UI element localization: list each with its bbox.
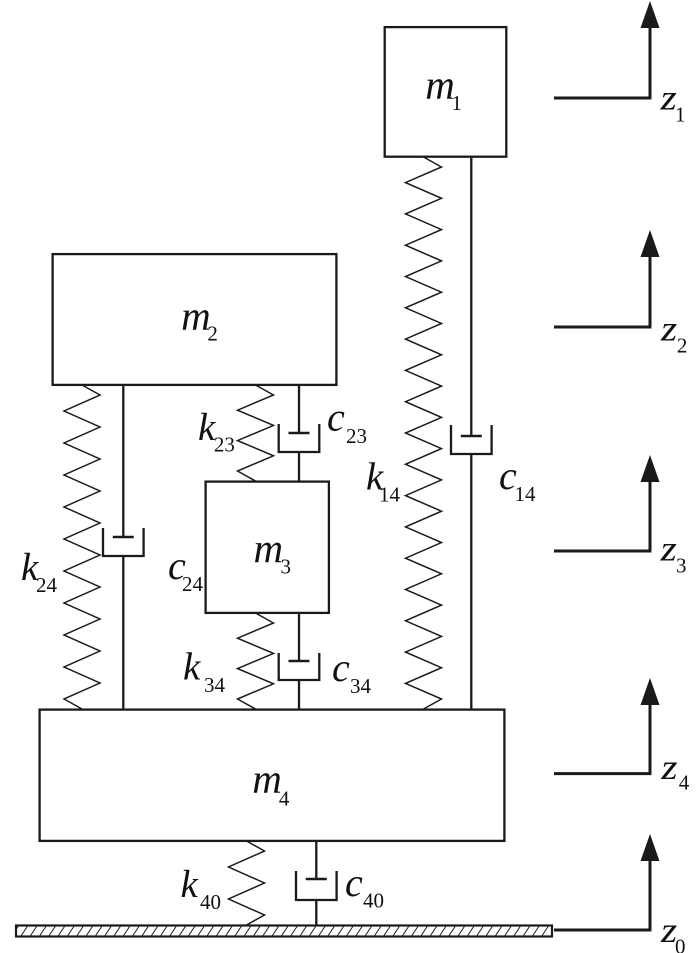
svg-text:3: 3 [281, 555, 292, 579]
svg-text:2: 2 [207, 322, 218, 346]
coordinate axis z4 vertical line [649, 702, 652, 774]
svg-text:z: z [660, 747, 677, 787]
coordinate axis z1 vertical line [649, 25, 652, 98]
svg-text:34: 34 [350, 674, 372, 698]
coordinate axis z3 arrowhead [641, 455, 660, 482]
damper c34 rod (bottom) [298, 680, 300, 709]
damper c14 cylinder cup [451, 425, 492, 454]
mass block m1 [385, 27, 507, 157]
coordinate axis z2 horizontal line [554, 326, 651, 329]
damper c40 rod (bottom) [315, 900, 317, 925]
coordinate axis z1 horizontal line [554, 97, 651, 100]
ground hatching [12, 927, 557, 936]
damper c24 rod (top) [122, 385, 124, 537]
coordinate axis z2 arrowhead [641, 230, 660, 257]
svg-text:14: 14 [515, 482, 537, 506]
damper c24 cylinder cup [103, 528, 144, 556]
coordinate axis z3 horizontal line [554, 550, 651, 553]
mass block m2 [53, 254, 337, 385]
svg-text:m: m [254, 525, 284, 571]
svg-text:23: 23 [346, 424, 367, 448]
svg-text:c: c [345, 860, 363, 905]
damper c14 rod (bottom) [470, 454, 472, 709]
coordinate axis z0 arrowhead [641, 834, 660, 861]
damper c23 piston plate [289, 432, 310, 435]
damper c40 cylinder cup [296, 871, 337, 900]
svg-text:24: 24 [36, 573, 58, 597]
svg-text:40: 40 [363, 889, 384, 913]
damper c34 piston plate [289, 660, 310, 663]
svg-text:m: m [425, 62, 455, 108]
coordinate axis z0 vertical line [649, 858, 652, 930]
damper c23 cylinder cup [279, 424, 320, 452]
svg-text:k: k [181, 863, 199, 906]
svg-text:z: z [660, 309, 677, 349]
ground bar outline [16, 926, 552, 937]
coordinate axis z3 vertical line [649, 479, 652, 551]
damper c23 rod (top) [298, 385, 300, 433]
damper c14 rod (top) [470, 157, 472, 436]
spring k24 [64, 385, 100, 709]
damper c34 cylinder cup [279, 653, 320, 680]
svg-text:1: 1 [452, 91, 463, 115]
svg-text:m: m [181, 292, 211, 338]
damper c40 piston plate [306, 878, 327, 881]
damper c34 rod (top) [298, 613, 300, 661]
svg-text:34: 34 [204, 673, 226, 697]
svg-text:2: 2 [677, 334, 688, 358]
svg-text:c: c [327, 395, 345, 440]
svg-text:4: 4 [679, 771, 690, 795]
mass block m3 [206, 482, 329, 613]
svg-text:c: c [332, 645, 350, 690]
spring k14 [406, 157, 442, 709]
mass block m4 [40, 710, 505, 841]
svg-text:14: 14 [379, 483, 401, 507]
svg-text:m: m [252, 756, 282, 802]
svg-text:1: 1 [675, 103, 686, 127]
svg-text:3: 3 [676, 554, 687, 578]
damper c24 piston plate [113, 536, 134, 539]
svg-text:24: 24 [182, 572, 204, 596]
svg-text:40: 40 [200, 890, 221, 914]
coordinate axis z4 arrowhead [641, 678, 660, 705]
coordinate axis z0 horizontal line [554, 929, 651, 932]
coordinate axis z4 horizontal line [554, 772, 651, 775]
coordinate axis z1 arrowhead [641, 1, 660, 28]
svg-text:23: 23 [214, 433, 235, 457]
damper c23 rod (bottom) [298, 452, 300, 481]
damper c40 rod (top) [315, 841, 317, 879]
svg-text:k: k [183, 646, 201, 689]
damper c14 piston plate [461, 435, 482, 438]
coordinate axis z2 vertical line [649, 254, 652, 327]
spring k34 [238, 613, 274, 709]
svg-text:z: z [660, 529, 677, 569]
svg-text:4: 4 [279, 786, 290, 810]
spring k23 [238, 385, 274, 481]
damper c24 rod (bottom) [122, 556, 124, 709]
spring k40 [229, 841, 265, 925]
svg-text:0: 0 [675, 935, 686, 953]
